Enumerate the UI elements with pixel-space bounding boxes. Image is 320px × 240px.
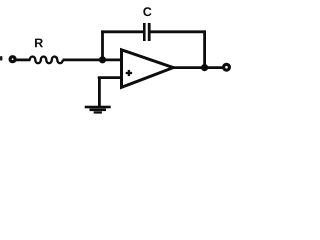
op-amp U1 xyxy=(122,50,174,88)
wire capacitor to feedback right vertical xyxy=(151,30,207,33)
label C xyxy=(143,7,151,16)
node B junction dot xyxy=(201,64,208,71)
wire resistor to inverting input xyxy=(63,59,123,62)
capacitor C xyxy=(143,23,151,41)
wire feedback left vertical xyxy=(101,30,104,59)
wire non-inverting input xyxy=(98,76,122,79)
resistor R xyxy=(30,57,63,64)
wire feedback top left to capacitor xyxy=(101,30,143,33)
plus mark non-inverting input xyxy=(126,70,132,76)
wire to ground xyxy=(98,78,101,107)
wire op-amp output xyxy=(172,66,223,69)
ground xyxy=(85,106,111,114)
output terminal xyxy=(224,64,230,70)
wire feedback right vertical xyxy=(203,30,206,67)
node A junction dot xyxy=(99,56,106,63)
input terminal xyxy=(10,57,15,62)
edge artifact mark xyxy=(0,56,2,61)
label R xyxy=(35,39,43,48)
wire input terminal to resistor xyxy=(16,59,31,62)
